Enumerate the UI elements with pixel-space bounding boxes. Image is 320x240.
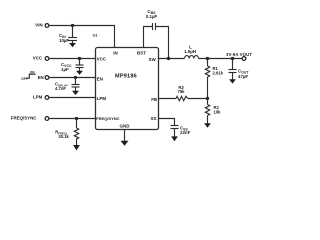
svg-text:1µF: 1µF (61, 67, 69, 72)
ground below RFREQ (73, 145, 80, 150)
svg-text:FB: FB (151, 97, 158, 102)
capacitor CSS 22nF (171, 126, 191, 138)
svg-text:VCC: VCC (97, 56, 107, 61)
node junction RFREQ tap (75, 117, 78, 120)
node junction COUT tap (231, 57, 234, 60)
svg-text:10µF: 10µF (59, 38, 69, 43)
inductor L 1.5uH (184, 45, 198, 59)
svg-text:47µF: 47µF (238, 74, 248, 79)
wire VIN rail to IN pin (49, 26, 115, 48)
IC U1 MP9186 (96, 48, 159, 130)
node junction CIN tap (71, 24, 74, 27)
svg-text:VCC: VCC (33, 55, 43, 60)
capacitor COUT 47uF (229, 59, 250, 80)
capacitor CBS 0.1uF (146, 9, 158, 30)
resistor RFREQ 30.1k (55, 119, 78, 146)
svg-text:1.5µH: 1.5µH (184, 49, 196, 54)
svg-text:U1: U1 (93, 34, 98, 38)
wire BST loop (144, 27, 153, 48)
svg-text:30.1k: 30.1k (58, 134, 69, 139)
wire SS pin (159, 119, 175, 126)
EN on/off waveform (21, 70, 35, 81)
ground below CIN (69, 43, 76, 47)
svg-text:75k: 75k (178, 89, 186, 94)
wire R3 to FB node (188, 98, 208, 100)
svg-text:0.1µF: 0.1µF (146, 14, 158, 19)
resistor R3 75k (horizontal) (176, 85, 188, 101)
svg-text:3V-9A VOUT: 3V-9A VOUT (226, 52, 252, 57)
capacitor CIN 10uF (59, 26, 77, 44)
svg-text:VIN: VIN (35, 23, 42, 28)
svg-text:FREQ/SYNC: FREQ/SYNC (96, 116, 119, 121)
node VCC terminal (33, 55, 49, 60)
node LPM terminal (33, 95, 49, 100)
node VOUT terminal (226, 52, 252, 60)
svg-text:2.61k: 2.61k (213, 71, 224, 76)
svg-text:SW: SW (149, 57, 157, 62)
svg-text:EN: EN (38, 75, 44, 80)
svg-text:LPM: LPM (97, 96, 107, 101)
node FREQ/SYNC terminal (11, 116, 49, 121)
svg-text:EN: EN (97, 76, 103, 81)
ground below CVCC (76, 71, 83, 75)
wire EN to IC (49, 77, 96, 79)
wire FB to R3 (159, 98, 177, 100)
node junction FB node (206, 97, 209, 100)
svg-text:SS: SS (150, 116, 156, 121)
svg-text:22nF: 22nF (180, 130, 191, 135)
wire LPM to IC (49, 97, 96, 99)
svg-text:MP9186: MP9186 (115, 73, 137, 79)
capacitor CVCC 1uF (61, 59, 84, 73)
node VIN terminal (35, 23, 49, 28)
ground below R2 (204, 123, 211, 128)
svg-text:4.7nF: 4.7nF (55, 86, 66, 91)
ground below COUT (229, 79, 236, 83)
ground below CDELAY (72, 91, 79, 95)
resistor R2 10k (205, 99, 221, 124)
node junction CDELAY tap (74, 76, 77, 79)
wire FREQ/SYNC to IC (49, 118, 96, 120)
resistor R1 2.61k (205, 59, 223, 99)
wire SW to inductor (159, 58, 185, 60)
node EN terminal (38, 75, 49, 80)
wire GND pin drop (124, 130, 126, 142)
svg-text:IN: IN (113, 50, 118, 55)
svg-text:LPM: LPM (33, 95, 43, 100)
node junction CVCC tap (78, 57, 81, 60)
ground below CSS (171, 136, 178, 141)
svg-text:FREQ/SYNC: FREQ/SYNC (11, 116, 37, 121)
wire VCC to IC (49, 58, 96, 60)
svg-text:10k: 10k (214, 110, 222, 115)
svg-text:GND: GND (120, 123, 131, 128)
ground below GND (121, 141, 129, 146)
node junction CBS drop (167, 57, 170, 60)
svg-text:BST: BST (137, 50, 146, 55)
node junction R1 tap (206, 57, 209, 60)
wire inductor to VOUT (199, 58, 243, 60)
capacitor CDELAY 4.7nF (55, 78, 80, 92)
